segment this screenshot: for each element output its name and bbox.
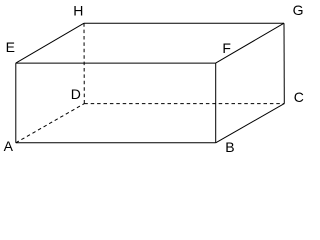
wire edge FG (right top depth) [216, 23, 284, 63]
wire edge DC (hidden, dashed) [84, 103, 284, 105]
wire edge GC (back right) [283, 23, 285, 103]
svg-text:D: D [71, 86, 81, 102]
wire edge AE (front left) [15, 63, 17, 143]
svg-text:A: A [4, 138, 14, 154]
wire edge BC (right bottom depth) [216, 104, 285, 143]
wire edge HD (hidden, dashed) [83, 23, 85, 103]
wire edge FB (front right) [215, 63, 217, 143]
wire edge AB (front bottom) [16, 142, 216, 144]
svg-text:H: H [73, 2, 83, 18]
wire edge HG (back top) [84, 22, 284, 24]
wire edge EF (front top) [16, 62, 216, 64]
svg-text:G: G [293, 2, 304, 18]
wire edge EH (left top depth) [16, 23, 84, 63]
svg-text:F: F [222, 40, 231, 56]
wire edge AD (hidden, dashed) [16, 104, 85, 143]
svg-text:C: C [294, 89, 304, 105]
svg-text:B: B [225, 139, 234, 155]
svg-text:E: E [6, 39, 15, 55]
